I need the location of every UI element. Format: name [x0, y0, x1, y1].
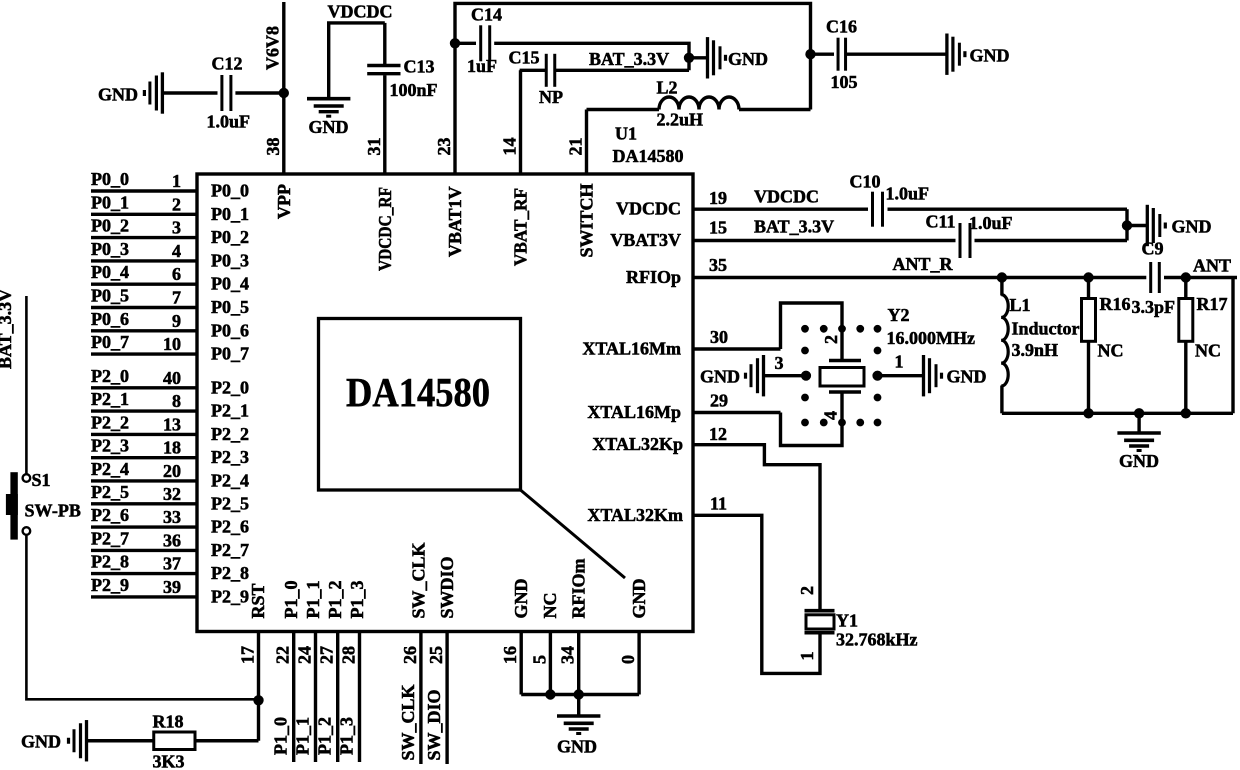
- svg-text:SW_CLK: SW_CLK: [398, 684, 418, 760]
- svg-text:VBAT_RF: VBAT_RF: [511, 188, 531, 266]
- ground GND (Y2 pin 3): [765, 374, 807, 377]
- svg-text:P0_4: P0_4: [91, 262, 129, 282]
- svg-text:P2_5: P2_5: [91, 482, 129, 502]
- svg-text:NC: NC: [540, 593, 560, 619]
- junction RST/S1: [254, 696, 263, 705]
- pin 35 RFIOp wire: [693, 276, 1146, 279]
- svg-text:31: 31: [364, 138, 384, 156]
- svg-text:VPP: VPP: [274, 184, 294, 219]
- svg-text:C11: C11: [926, 212, 956, 232]
- svg-text:34: 34: [558, 646, 578, 664]
- svg-text:GND: GND: [700, 367, 740, 387]
- svg-text:14: 14: [500, 138, 520, 156]
- ground GND (VDCDC): [307, 97, 350, 101]
- ground GND (C16): [945, 34, 948, 75]
- svg-text:ANT: ANT: [1193, 256, 1231, 276]
- node P0_1 wire / pin 2: [91, 213, 197, 216]
- svg-text:P2_6: P2_6: [211, 517, 249, 537]
- pin 30 XTAL16Mm wire: [693, 347, 781, 350]
- svg-text:P0_6: P0_6: [211, 320, 249, 340]
- svg-text:12: 12: [709, 424, 727, 444]
- capacitor C11: [959, 223, 962, 258]
- svg-text:C9: C9: [1142, 239, 1164, 259]
- svg-text:C14: C14: [471, 5, 502, 25]
- svg-text:P2_9: P2_9: [211, 586, 249, 606]
- svg-text:GND: GND: [1119, 451, 1159, 471]
- svg-text:30: 30: [710, 327, 728, 347]
- svg-text:P1_2: P1_2: [325, 581, 345, 619]
- svg-text:25: 25: [426, 646, 446, 664]
- svg-text:2: 2: [821, 335, 841, 344]
- svg-text:22: 22: [273, 646, 293, 664]
- wire VBAT1V pin 23 stub: [453, 43, 456, 174]
- svg-text:Inductor: Inductor: [1012, 319, 1080, 339]
- node V6V8 vertical rail / VPP pin 38: [282, 2, 285, 174]
- svg-text:40: 40: [163, 368, 181, 388]
- svg-text:37: 37: [163, 554, 181, 574]
- wire bottom GND bus: [521, 693, 639, 696]
- svg-text:P0_4: P0_4: [211, 274, 249, 294]
- wire C14 to BAT_3.3V junction: [494, 43, 689, 70]
- ground GND (C10/C11): [1127, 224, 1146, 227]
- svg-text:3K3: 3K3: [153, 752, 185, 770]
- svg-text:GND: GND: [947, 367, 987, 387]
- svg-text:P1_1: P1_1: [293, 717, 313, 755]
- svg-text:P2_7: P2_7: [91, 528, 129, 548]
- pin 25 SWDIO stub wire: [445, 632, 448, 765]
- pin 0 GND stub wire: [637, 632, 640, 695]
- capacitor C13 (horizontal plates): [367, 64, 400, 67]
- svg-text:2.2uH: 2.2uH: [657, 110, 704, 130]
- svg-text:P0_5: P0_5: [91, 286, 129, 306]
- svg-text:P1_0: P1_0: [281, 581, 301, 619]
- pin 5 NC stub wire: [549, 632, 552, 695]
- Y2 pin 3 pad: [801, 371, 810, 380]
- svg-text:SW_DIO: SW_DIO: [424, 689, 444, 760]
- svg-text:BAT_3.3V: BAT_3.3V: [589, 49, 669, 69]
- pin 22 P1_0 stub wire: [292, 632, 295, 763]
- ground GND (BAT_3.3V): [689, 56, 707, 59]
- svg-text:13: 13: [163, 414, 181, 434]
- pin 26 SW_CLK stub wire: [419, 632, 422, 765]
- wire antenna bottom bus: [1002, 412, 1233, 415]
- svg-text:BAT_3.3V: BAT_3.3V: [0, 289, 15, 369]
- ground GND (bottom bus): [577, 695, 580, 717]
- ground GND (C12 left): [163, 91, 217, 94]
- node P0_0 wire / pin 1: [91, 189, 197, 192]
- svg-text:GND: GND: [511, 579, 531, 619]
- svg-text:P1_3: P1_3: [347, 581, 367, 619]
- svg-text:VDCDC_RF: VDCDC_RF: [375, 187, 395, 271]
- svg-text:1: 1: [797, 652, 817, 661]
- svg-text:7: 7: [172, 288, 181, 308]
- svg-text:NC: NC: [1098, 341, 1124, 361]
- svg-text:GND: GND: [21, 732, 61, 752]
- svg-text:3: 3: [172, 218, 181, 238]
- wire C13 / VDCDC_RF pin 31 stub: [383, 23, 386, 64]
- svg-text:VDCDC: VDCDC: [754, 187, 819, 207]
- capacitor C10: [871, 192, 874, 227]
- svg-text:P0_6: P0_6: [91, 309, 129, 329]
- svg-text:16.000MHz: 16.000MHz: [887, 328, 975, 348]
- svg-text:GND: GND: [98, 85, 138, 105]
- node P0_4 wire / pin 6: [91, 283, 197, 286]
- wire VDCDC/BAT_3.3V to GND junction: [1125, 209, 1128, 240]
- pin 17 RST stub wire: [257, 632, 260, 741]
- node P0_2 wire / pin 3: [91, 236, 197, 239]
- svg-text:VBAT1V: VBAT1V: [445, 186, 465, 257]
- svg-text:28: 28: [339, 646, 359, 664]
- svg-text:P0_2: P0_2: [91, 216, 129, 236]
- svg-text:XTAL32Kp: XTAL32Kp: [592, 434, 683, 454]
- svg-text:P2_2: P2_2: [91, 412, 129, 432]
- junction bus R16: [1084, 409, 1093, 418]
- crystal Y2: [829, 359, 861, 363]
- svg-text:DA14580: DA14580: [346, 369, 490, 415]
- pin 15 VBAT3V wire: [693, 239, 956, 242]
- Y2 pin 1 pad: [873, 371, 882, 380]
- IC U1 DA14580 chip outline: [197, 174, 693, 632]
- svg-text:XTAL16Mp: XTAL16Mp: [587, 402, 681, 422]
- svg-text:3.3pF: 3.3pF: [1132, 297, 1176, 317]
- svg-text:27: 27: [317, 646, 337, 664]
- svg-text:1.0uF: 1.0uF: [969, 213, 1013, 233]
- svg-text:38: 38: [263, 138, 283, 156]
- pin 12 XTAL32Kp wire: [693, 445, 820, 609]
- svg-text:P1_0: P1_0: [271, 717, 291, 755]
- svg-text:1: 1: [172, 171, 181, 191]
- svg-text:4: 4: [172, 241, 181, 261]
- svg-text:P0_5: P0_5: [211, 297, 249, 317]
- svg-text:100nF: 100nF: [390, 80, 438, 100]
- svg-text:SW-PB: SW-PB: [25, 501, 81, 521]
- svg-text:VDCDC: VDCDC: [616, 199, 681, 219]
- svg-text:P0_1: P0_1: [91, 192, 129, 212]
- crystal Y1: [805, 609, 835, 613]
- svg-text:C12: C12: [212, 54, 243, 74]
- svg-text:11: 11: [710, 494, 727, 514]
- svg-text:19: 19: [709, 188, 727, 208]
- svg-text:P0_0: P0_0: [211, 181, 249, 201]
- svg-text:P2_9: P2_9: [91, 575, 129, 595]
- junction R17 top: [1181, 273, 1190, 282]
- capacitor C12: [220, 75, 223, 111]
- wire C16 to GND: [846, 53, 946, 56]
- svg-text:S1: S1: [32, 470, 51, 490]
- svg-text:2: 2: [797, 586, 817, 595]
- svg-text:1.0uF: 1.0uF: [207, 112, 251, 132]
- capacitor C16: [811, 53, 835, 56]
- svg-text:P1_1: P1_1: [303, 581, 323, 619]
- svg-text:C16: C16: [826, 17, 857, 37]
- pin 16 GND stub wire: [520, 632, 523, 695]
- svg-text:P2_1: P2_1: [211, 401, 249, 421]
- junction C10/C11/GND: [1122, 221, 1131, 230]
- svg-text:20: 20: [163, 461, 181, 481]
- wire top rail: [455, 3, 811, 109]
- svg-text:10: 10: [163, 334, 181, 354]
- svg-text:9: 9: [172, 311, 181, 331]
- Y2 footprint pads: [802, 325, 809, 332]
- junction V6V8/C12: [279, 88, 288, 97]
- svg-text:C15: C15: [509, 48, 540, 68]
- svg-text:23: 23: [434, 138, 454, 156]
- svg-text:P0_2: P0_2: [211, 227, 249, 247]
- node P0_5 wire / pin 7: [91, 306, 197, 309]
- svg-text:VDCDC: VDCDC: [328, 2, 393, 22]
- wire C12 to V6V8 rail: [235, 91, 283, 94]
- svg-text:DA14580: DA14580: [613, 146, 684, 166]
- node BAT_3.3V wire (C15 right): [555, 69, 689, 72]
- junction NC/bus: [546, 690, 555, 699]
- ground GND (Y2 pin 1): [878, 374, 923, 377]
- svg-text:P2_0: P2_0: [211, 377, 249, 397]
- svg-text:8: 8: [172, 391, 181, 411]
- node P0_6 wire / pin 9: [91, 329, 197, 332]
- junction RFIOm/bus: [574, 690, 583, 699]
- junction L1 top: [997, 273, 1006, 282]
- pin 27 P1_2 stub wire: [336, 632, 339, 763]
- svg-text:21: 21: [566, 138, 586, 156]
- pin 11 XTAL32Km wire: [693, 515, 820, 673]
- svg-text:17: 17: [238, 646, 258, 664]
- svg-text:36: 36: [163, 530, 181, 550]
- node P2_6 wire / pin 33: [91, 525, 197, 528]
- svg-text:3.9nH: 3.9nH: [1012, 340, 1059, 360]
- resistor R18: [88, 739, 154, 742]
- svg-text:32.768kHz: 32.768kHz: [836, 630, 918, 650]
- svg-text:P0_3: P0_3: [211, 250, 249, 270]
- svg-text:P1_2: P1_2: [315, 717, 335, 755]
- svg-text:V6V8: V6V8: [263, 26, 283, 70]
- svg-text:1: 1: [895, 352, 904, 372]
- svg-text:P2_6: P2_6: [91, 505, 129, 525]
- node P2_5 wire / pin 32: [91, 502, 197, 505]
- junction C14: [450, 39, 459, 48]
- svg-text:XTAL32Km: XTAL32Km: [587, 505, 683, 525]
- capacitor C14: [455, 42, 476, 45]
- svg-text:ANT_R: ANT_R: [893, 254, 954, 274]
- svg-text:P2_4: P2_4: [91, 459, 129, 479]
- svg-text:C13: C13: [404, 57, 435, 77]
- node P2_9 wire / pin 39: [91, 595, 197, 598]
- svg-text:SWDIO: SWDIO: [437, 556, 457, 618]
- node P0_7 wire / pin 10: [91, 352, 197, 355]
- svg-text:Y2: Y2: [888, 305, 910, 325]
- svg-text:15: 15: [709, 218, 727, 238]
- svg-text:BAT_3.3V: BAT_3.3V: [754, 217, 834, 237]
- svg-text:1uF: 1uF: [467, 56, 497, 76]
- svg-text:NP: NP: [539, 87, 563, 107]
- node P2_0 wire / pin 40: [91, 386, 197, 389]
- wire XTAL16Mm pin 30 route to Y2: [781, 303, 843, 360]
- svg-text:P1_3: P1_3: [337, 717, 357, 755]
- svg-text:1.0uF: 1.0uF: [886, 184, 930, 204]
- node P2_4 wire / pin 20: [91, 479, 197, 482]
- svg-text:RFIOp: RFIOp: [626, 267, 681, 287]
- svg-text:P2_5: P2_5: [211, 493, 249, 513]
- svg-text:RST: RST: [248, 583, 268, 618]
- svg-text:P0_3: P0_3: [91, 239, 129, 259]
- svg-text:R17: R17: [1197, 294, 1228, 314]
- node P0_3 wire / pin 4: [91, 259, 197, 262]
- svg-text:L1: L1: [1010, 295, 1031, 315]
- svg-text:SW_CLK: SW_CLK: [408, 542, 428, 618]
- svg-text:Y1: Y1: [836, 611, 858, 631]
- wire SWITCH pin 21 stub: [585, 110, 588, 175]
- svg-text:32: 32: [163, 484, 181, 504]
- inductor L1: [1000, 278, 1003, 296]
- svg-text:29: 29: [710, 391, 728, 411]
- U1 inner core box: [319, 319, 521, 491]
- svg-text:3: 3: [775, 353, 784, 373]
- svg-text:P2_1: P2_1: [91, 389, 129, 409]
- svg-text:P2_3: P2_3: [211, 447, 249, 467]
- junction BAT_3.3V/GND: [684, 53, 693, 62]
- svg-text:GND: GND: [970, 46, 1010, 66]
- svg-text:RFIOm: RFIOm: [568, 559, 588, 619]
- node P2_3 wire / pin 18: [91, 456, 197, 459]
- wire diagonal from core to GND pin: [521, 490, 626, 578]
- wire XTAL16Mp pin 29 route to Y2: [781, 393, 843, 446]
- node P2_1 wire / pin 8: [91, 409, 197, 412]
- svg-text:P0_1: P0_1: [211, 204, 249, 224]
- svg-text:5: 5: [529, 655, 549, 664]
- svg-text:P0_7: P0_7: [211, 344, 249, 364]
- junction bus R17: [1181, 409, 1190, 418]
- svg-text:GND: GND: [629, 579, 649, 619]
- switch S1 SW-PB: [23, 474, 31, 482]
- svg-text:U1: U1: [615, 124, 637, 144]
- svg-text:105: 105: [831, 72, 858, 92]
- svg-text:2: 2: [172, 194, 181, 214]
- svg-text:24: 24: [295, 646, 315, 664]
- svg-text:4: 4: [821, 411, 841, 420]
- svg-text:GND: GND: [557, 737, 597, 757]
- node P2_7 wire / pin 36: [91, 549, 197, 552]
- svg-text:39: 39: [163, 577, 181, 597]
- svg-text:P2_0: P2_0: [91, 366, 129, 386]
- svg-text:XTAL16Mm: XTAL16Mm: [582, 339, 681, 359]
- svg-text:L2: L2: [657, 78, 678, 98]
- svg-text:VBAT3V: VBAT3V: [610, 230, 681, 250]
- pin 24 P1_1 stub wire: [314, 632, 317, 763]
- wire C15 left / VBAT_RF pin 14 stub: [521, 70, 547, 174]
- svg-text:P0_7: P0_7: [91, 332, 129, 352]
- svg-text:NC: NC: [1195, 341, 1221, 361]
- svg-text:P2_3: P2_3: [91, 436, 129, 456]
- wire antenna right edge: [1231, 278, 1234, 414]
- node P2_2 wire / pin 13: [91, 433, 197, 436]
- svg-text:C10: C10: [850, 172, 881, 192]
- wire BAT_3.3V to S1: [25, 296, 28, 475]
- resistor R16: [1087, 278, 1090, 299]
- svg-text:R16: R16: [1100, 294, 1131, 314]
- svg-text:P2_2: P2_2: [211, 424, 249, 444]
- svg-text:16: 16: [500, 646, 520, 664]
- svg-text:P0_0: P0_0: [91, 169, 129, 189]
- svg-text:33: 33: [163, 507, 181, 527]
- svg-text:P2_7: P2_7: [211, 540, 249, 560]
- svg-text:P2_8: P2_8: [91, 552, 129, 572]
- junction C16: [806, 50, 815, 59]
- ground GND (antenna bus): [1137, 413, 1140, 433]
- svg-text:18: 18: [163, 438, 181, 458]
- svg-text:26: 26: [400, 646, 420, 664]
- svg-text:P2_4: P2_4: [211, 470, 249, 490]
- pin 34 RFIOm stub wire: [577, 632, 580, 695]
- svg-text:P2_8: P2_8: [211, 563, 249, 583]
- svg-text:35: 35: [709, 255, 727, 275]
- wire VDCDC bracket: [329, 23, 385, 98]
- svg-text:SWITCH: SWITCH: [577, 183, 597, 257]
- svg-text:0: 0: [618, 655, 638, 664]
- junction bus GND: [1134, 409, 1143, 418]
- svg-text:GND: GND: [309, 117, 349, 137]
- resistor R17: [1184, 278, 1187, 299]
- node P2_8 wire / pin 37: [91, 572, 197, 575]
- svg-text:R18: R18: [153, 712, 184, 732]
- pin 28 P1_3 stub wire: [358, 632, 361, 763]
- junction R16 top: [1084, 273, 1093, 282]
- svg-text:GND: GND: [728, 49, 768, 69]
- pin 29 XTAL16Mp wire: [693, 411, 781, 414]
- svg-text:GND: GND: [1172, 217, 1212, 237]
- svg-text:6: 6: [172, 264, 181, 284]
- wire S1 to RST junction: [26, 535, 258, 700]
- pin 19 VDCDC wire: [693, 207, 868, 210]
